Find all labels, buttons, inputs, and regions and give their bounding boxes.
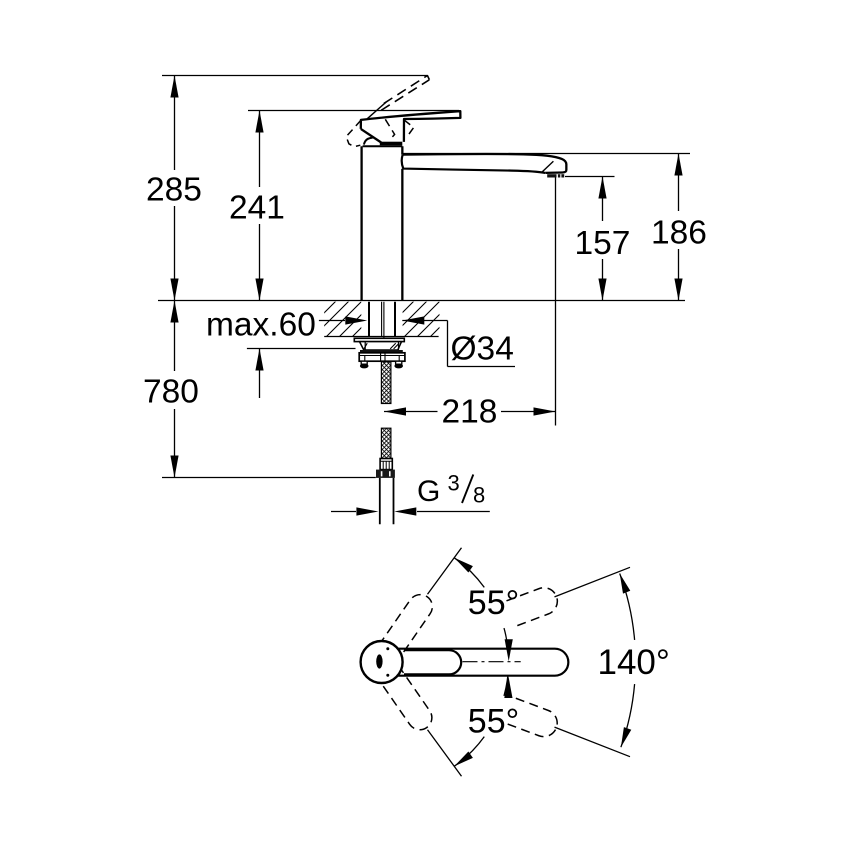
svg-text:780: 780 — [143, 374, 199, 411]
svg-text:157: 157 — [575, 225, 631, 262]
svg-text:G: G — [417, 475, 440, 508]
svg-text:218: 218 — [442, 394, 498, 431]
svg-text:3: 3 — [448, 471, 460, 496]
svg-text:186: 186 — [651, 215, 707, 252]
svg-text:140°: 140° — [598, 643, 670, 682]
svg-text:Ø34: Ø34 — [451, 331, 514, 368]
svg-text:8: 8 — [473, 483, 485, 508]
svg-text:55°: 55° — [468, 702, 519, 740]
svg-text:241: 241 — [229, 190, 285, 227]
svg-text:55°: 55° — [468, 584, 519, 622]
svg-text:285: 285 — [146, 172, 202, 209]
svg-text:max.60: max.60 — [206, 307, 316, 344]
